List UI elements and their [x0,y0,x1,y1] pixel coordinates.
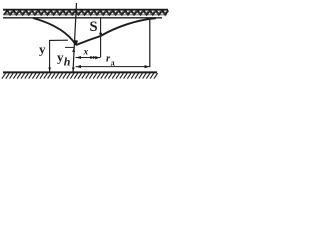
arrowhead on S line at curve [99,33,102,37]
svg-text:S: S [90,19,98,35]
ground surface secondary hatch [6,11,167,14]
right boundary vertical at radius of depression [149,19,151,67]
ground surface hatch bottom edge [3,14,167,16]
svg-text:h: h [64,55,71,69]
h dimension bottom arrowhead [72,68,75,72]
aquiclude top line [3,71,157,73]
r_d radius dimension line [76,66,150,68]
ground surface zigzag hatch [4,10,168,14]
r_d right arrowhead [145,65,150,68]
svg-text:у: у [39,42,46,57]
S drawdown vertical line [100,18,102,58]
h dimension top tick [65,46,75,48]
svg-text:д: д [111,58,115,67]
x abscissa dimension line [76,57,101,59]
y ordinate top tick to curve [49,39,68,41]
y dimension bottom arrowhead [48,68,51,72]
drain axis vertical [73,3,77,72]
x dimension right arrowhead [95,56,100,59]
y ordinate dimension vertical [49,40,51,71]
aquiclude diagonal hatch [2,73,158,78]
r_d left arrowhead [76,65,81,68]
arrowhead at depression vertex [74,40,78,46]
left depression curve [33,18,76,45]
h dimension top arrowhead [72,48,75,52]
ground surface top line [3,9,168,11]
static water level line [3,17,162,19]
svg-text:x: x [83,48,89,58]
right depression curve [76,18,156,45]
x dimension left arrowhead [76,56,81,59]
svg-text:ог: ог [90,54,96,61]
